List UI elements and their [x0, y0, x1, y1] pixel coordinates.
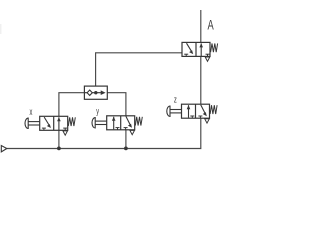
- svg-text:y: y: [96, 105, 99, 116]
- svg-text:A: A: [208, 18, 214, 33]
- svg-text:z: z: [174, 94, 177, 105]
- svg-text:x: x: [30, 107, 33, 118]
